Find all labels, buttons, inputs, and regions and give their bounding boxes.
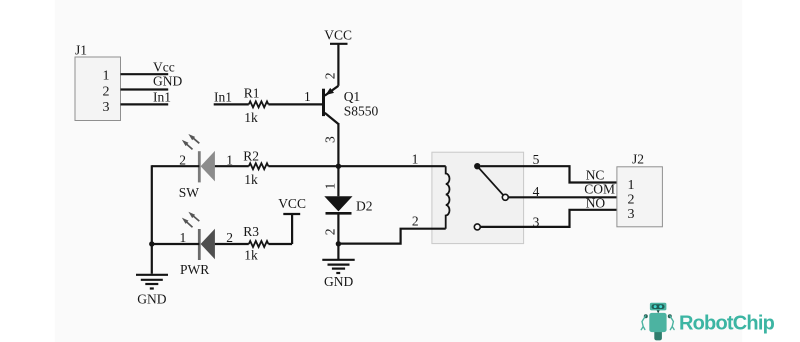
svg-text:GND: GND bbox=[153, 74, 182, 89]
svg-text:R2: R2 bbox=[243, 149, 259, 164]
robot left shoulder bbox=[644, 314, 648, 318]
svg-text:1: 1 bbox=[628, 178, 635, 193]
ground (center) bbox=[322, 244, 354, 289]
resistor R3 bbox=[243, 224, 268, 263]
svg-text:SW: SW bbox=[179, 185, 200, 200]
svg-text:1k: 1k bbox=[244, 172, 258, 187]
svg-text:3: 3 bbox=[103, 100, 110, 115]
svg-text:VCC: VCC bbox=[324, 28, 352, 43]
svg-text:2: 2 bbox=[322, 229, 337, 236]
wire relay pin4 to J2 pin2 (COM) bbox=[508, 196, 617, 198]
svg-text:2: 2 bbox=[103, 84, 110, 99]
transistor Q1 S8550 bbox=[304, 72, 378, 143]
svg-text:1: 1 bbox=[412, 152, 419, 167]
junction node rail/PWR bbox=[149, 241, 154, 246]
relay COM contact bbox=[502, 194, 508, 200]
svg-text:1: 1 bbox=[180, 230, 187, 245]
wire J1 pin3 bbox=[121, 103, 169, 105]
wire Q1 collector down bbox=[337, 123, 339, 166]
robot eyes bbox=[654, 305, 657, 308]
relay K1 body bbox=[432, 152, 524, 243]
wire D2 to bottom node bbox=[337, 213, 339, 244]
ground (left) bbox=[136, 275, 168, 307]
svg-text:1: 1 bbox=[304, 89, 311, 104]
wire LED PWR to R3 bbox=[215, 243, 249, 245]
wire R1 to Q1 base bbox=[268, 103, 322, 105]
svg-text:J1: J1 bbox=[75, 43, 87, 58]
wire R3 to VCC drop bbox=[268, 243, 292, 245]
relay switch arm bbox=[479, 168, 503, 195]
svg-text:3: 3 bbox=[628, 207, 635, 222]
svg-text:NC: NC bbox=[586, 168, 605, 183]
junction node bottom bbox=[336, 241, 341, 246]
svg-text:5: 5 bbox=[533, 152, 540, 167]
svg-text:R3: R3 bbox=[243, 224, 259, 239]
wire VCC2 down bbox=[291, 214, 293, 244]
wire relay pin3 to J2 pin3 (NO) bbox=[480, 210, 617, 227]
svg-text:J2: J2 bbox=[632, 151, 644, 166]
svg-text:1k: 1k bbox=[244, 110, 258, 125]
connector J1 bbox=[75, 43, 121, 121]
svg-text:VCC: VCC bbox=[278, 196, 306, 211]
svg-text:NO: NO bbox=[586, 195, 606, 210]
RobotChip logo bbox=[641, 303, 774, 341]
svg-text:R1: R1 bbox=[244, 85, 260, 100]
svg-text:In1: In1 bbox=[214, 90, 232, 105]
wire In1 to R1 bbox=[214, 103, 249, 105]
svg-text:GND: GND bbox=[324, 274, 353, 289]
wire J1 pin2 bbox=[121, 88, 169, 90]
svg-text:In1: In1 bbox=[153, 90, 171, 105]
svg-text:2: 2 bbox=[412, 214, 419, 229]
svg-text:GND: GND bbox=[137, 292, 166, 307]
svg-text:Vcc: Vcc bbox=[153, 59, 175, 74]
wire left rail bbox=[151, 165, 153, 274]
robot body bbox=[649, 313, 666, 332]
wire bottom node to relay coil pin2 bbox=[338, 229, 445, 244]
connector J2 bbox=[617, 151, 663, 226]
svg-text:1: 1 bbox=[103, 69, 110, 84]
wire rail to LED PWR bbox=[152, 243, 200, 245]
diode D2 bbox=[324, 196, 372, 213]
relay NO contact bbox=[474, 224, 480, 230]
wire J1 pin1 bbox=[121, 73, 169, 75]
svg-text:3: 3 bbox=[323, 136, 338, 143]
svg-text:Q1: Q1 bbox=[344, 89, 361, 104]
robot head bbox=[650, 303, 667, 311]
robot right shoulder bbox=[668, 314, 672, 318]
robot left arm bbox=[641, 316, 645, 330]
svg-text:RobotChip: RobotChip bbox=[679, 313, 775, 335]
resistor R1 bbox=[244, 85, 269, 125]
junction node collector bbox=[336, 164, 341, 169]
svg-text:D2: D2 bbox=[356, 199, 373, 214]
wire VCC to Q1 emitter bbox=[337, 44, 339, 86]
resistor R2 bbox=[243, 149, 268, 188]
robot legs bbox=[654, 330, 662, 340]
wire collector node to D2 bbox=[337, 166, 339, 196]
power symbol VCC (second) bbox=[278, 196, 306, 214]
wire LED SW to R2 bbox=[215, 165, 249, 167]
relay coil bbox=[446, 166, 450, 229]
svg-text:COM: COM bbox=[584, 181, 615, 196]
LED PWR (D3) bbox=[180, 212, 233, 277]
svg-text:2: 2 bbox=[226, 230, 233, 245]
power symbol VCC (top) bbox=[324, 28, 352, 44]
robot eye band bbox=[652, 304, 665, 309]
LED SW (D1) bbox=[179, 134, 233, 200]
svg-text:S8550: S8550 bbox=[344, 104, 379, 119]
svg-text:2: 2 bbox=[628, 192, 635, 207]
svg-text:1: 1 bbox=[322, 183, 337, 190]
wire rail to LED SW bbox=[152, 165, 200, 167]
relay pole contact bbox=[474, 163, 480, 169]
robot right arm bbox=[670, 316, 674, 330]
svg-text:1k: 1k bbox=[244, 248, 258, 263]
svg-text:2: 2 bbox=[323, 72, 338, 79]
wire relay pin5 to J2 pin1 (NC) bbox=[481, 166, 617, 182]
wire R2 to relay coil bbox=[268, 165, 445, 167]
svg-text:PWR: PWR bbox=[180, 262, 209, 277]
robot neck bbox=[656, 310, 660, 314]
